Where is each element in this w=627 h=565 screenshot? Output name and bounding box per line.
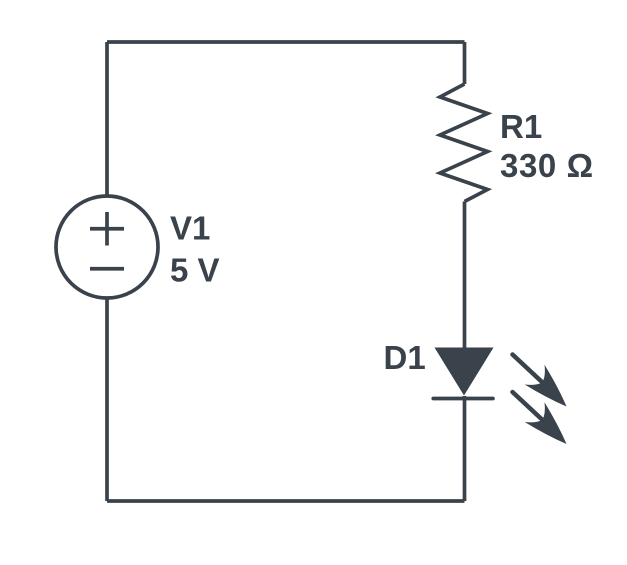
wire right vertical (LED to bottom) (463, 396, 467, 501)
wire right vertical (resistor to LED) (463, 202, 467, 350)
wire left vertical (top segment) (105, 42, 109, 197)
svg-text:V1: V1 (170, 210, 210, 247)
svg-text:330 Ω: 330 Ω (500, 147, 594, 184)
V1 minus sign (90, 267, 124, 271)
resistor R1 (440, 84, 488, 202)
V1 plus sign (90, 212, 124, 246)
LED light arrow 1 head (525, 365, 577, 417)
voltage source V1 circle (56, 196, 158, 298)
wire left vertical (bottom segment) (105, 297, 109, 501)
wire bottom horizontal (107, 499, 465, 503)
LED light arrow 2 shaft (513, 392, 543, 420)
LED light arrow 2 head (525, 402, 577, 454)
svg-text:D1: D1 (384, 339, 426, 376)
LED D1 anode triangle (435, 348, 494, 396)
svg-text:5 V: 5 V (170, 252, 220, 289)
LED light arrow 1 shaft (513, 355, 543, 383)
wire top horizontal (107, 40, 465, 44)
wire right vertical (top segment to resistor) (463, 42, 467, 84)
LED D1 cathode bar (433, 397, 493, 401)
svg-text:R1: R1 (500, 108, 542, 145)
